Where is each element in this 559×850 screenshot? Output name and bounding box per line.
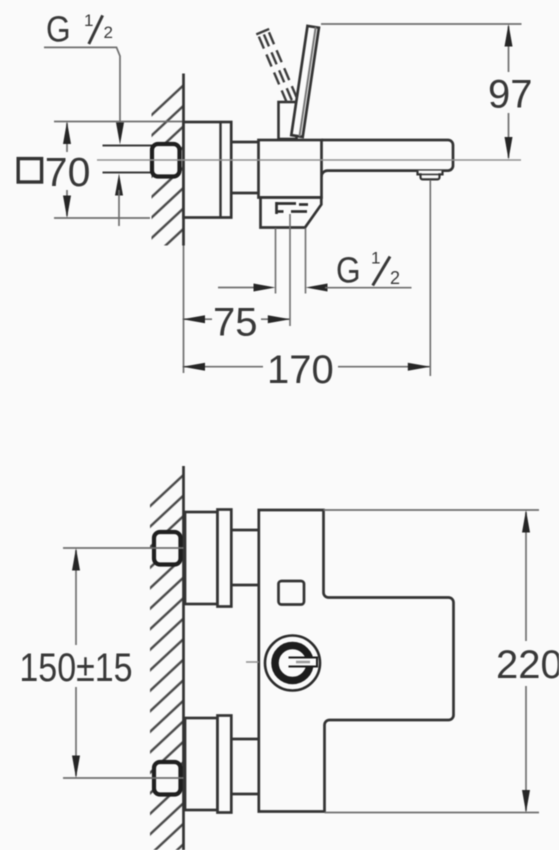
wall escutcheon (top view) bbox=[184, 122, 232, 218]
lower outlet housing (top view) bbox=[261, 198, 322, 228]
dimension 70 bbox=[45, 122, 91, 219]
svg-text:70: 70 bbox=[45, 149, 91, 195]
lower union nut (bottom view) bbox=[154, 762, 181, 795]
square union nut on wall (top view) bbox=[152, 144, 180, 177]
horizontal centerline of inlet/spout bbox=[97, 159, 521, 161]
extension line, escutcheon top (70 dim) bbox=[54, 121, 184, 123]
G 1/2 extension lines below outlet bbox=[276, 228, 306, 294]
spout (top view) bbox=[322, 140, 454, 177]
GROHE logo bbox=[265, 636, 320, 691]
svg-text:1: 1 bbox=[84, 11, 93, 30]
aerator / mousseur bbox=[418, 171, 443, 180]
lever neck bbox=[279, 102, 297, 139]
extension line, escutcheon bottom (70 dim) bbox=[54, 217, 150, 219]
lower union stub lines bbox=[231, 739, 258, 794]
upper wall escutcheon (bottom view) bbox=[185, 510, 231, 607]
union stub between escutcheon and body bbox=[231, 142, 258, 193]
dimension 170 bbox=[183, 348, 431, 392]
G 1/2 label (outlet) bbox=[336, 249, 400, 291]
faucet body (top view) bbox=[259, 140, 322, 198]
upper union nut (bottom view) bbox=[154, 532, 181, 565]
wall face line (bottom view) bbox=[182, 466, 185, 850]
wall face line (top view) bbox=[182, 74, 185, 246]
diverter button bbox=[279, 581, 305, 605]
svg-text:97: 97 bbox=[488, 73, 533, 117]
lever handle open position (dashed) bbox=[256, 28, 299, 103]
G 1/2 label (top) bbox=[44, 10, 124, 145]
square-section symbol bbox=[18, 159, 41, 182]
dimension 150±15 bbox=[19, 548, 132, 778]
svg-text:170: 170 bbox=[267, 348, 334, 392]
svg-text:2: 2 bbox=[390, 268, 400, 288]
upper union stub lines bbox=[231, 530, 258, 585]
svg-text:2: 2 bbox=[104, 23, 113, 42]
svg-text:G: G bbox=[336, 250, 361, 290]
svg-text:150±15: 150±15 bbox=[19, 644, 132, 689]
svg-text:G: G bbox=[46, 10, 71, 50]
dimension 75 bbox=[183, 301, 291, 345]
150±15 extension lines / nut centerlines bbox=[63, 548, 184, 778]
lower wall escutcheon (bottom view) bbox=[185, 716, 231, 813]
shower outlet nipple detail bbox=[277, 202, 309, 214]
wall face extension line down to 75/170 dims bbox=[183, 246, 185, 374]
body and spout outline (bottom view) bbox=[259, 510, 454, 812]
G 1/2 outlet arrows bbox=[218, 284, 412, 292]
arrow up to inlet pipe bottom line bbox=[115, 174, 123, 227]
svg-text:1: 1 bbox=[371, 249, 380, 268]
aerator centerline (170 dim right extension) bbox=[429, 180, 431, 376]
body centerline tick bbox=[246, 661, 259, 663]
concealed inlet pipe lines behind wall bbox=[103, 146, 153, 173]
wall hatch (bottom view) bbox=[150, 466, 184, 850]
outlet centerline (75 dim right extension) bbox=[289, 214, 291, 326]
dimension 220 bbox=[324, 510, 559, 813]
lever handle (closed position) bbox=[291, 26, 319, 137]
dimension 97 bbox=[321, 24, 533, 160]
svg-text:75: 75 bbox=[213, 301, 258, 345]
wall hatch (top view) bbox=[152, 73, 184, 246]
svg-text:220: 220 bbox=[496, 643, 559, 687]
